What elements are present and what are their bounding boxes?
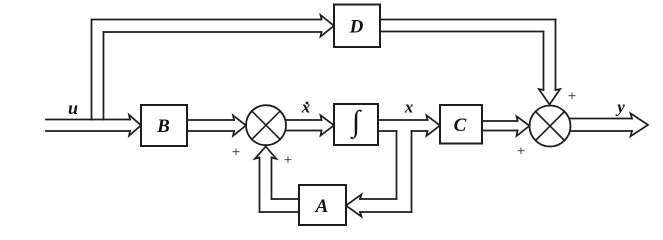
label u [68,98,78,118]
arrowhead into S2 from left [517,116,530,136]
label x-dot [301,98,311,117]
svg-text:∫: ∫ [350,105,362,140]
svg-text:+: + [517,144,525,160]
label C [454,115,467,136]
wire D output to corner [380,20,556,32]
plus sign S2 top [568,89,576,105]
svg-text:+: + [232,145,240,161]
label x [404,98,414,117]
label B [156,116,170,137]
label A [315,196,329,217]
svg-text:+: + [284,153,292,169]
arrowhead into D [321,15,335,37]
svg-text:y: y [615,98,625,117]
wire integrator to C bottom line broken at branch [378,130,428,132]
svg-text:u: u [68,98,78,118]
svg-text:B: B [156,116,170,137]
wire drop down to S2 [544,20,556,91]
wire S2 to output y [571,119,633,132]
label y [615,98,625,117]
arrowhead output y [631,113,649,136]
node x branch verticals down [397,131,412,212]
summing junction S1 [246,105,286,145]
arrowhead into S1 from below [255,147,277,159]
arrowhead into integrator [321,115,335,135]
wire integrator to C top line [378,119,428,121]
wire C to S2 [482,121,518,131]
wire branch into A horizontal [360,199,412,212]
svg-text:C: C [454,115,467,136]
wire input u double line [46,120,130,132]
plus sign S1 left [232,145,240,161]
block B [141,105,187,146]
svg-text:A: A [315,196,329,217]
wire B to S1 [187,120,234,131]
svg-text:x: x [404,98,414,117]
wire A output up to S1 [260,158,272,213]
svg-text:+: + [568,89,576,105]
block integrator [334,104,378,145]
wire S1 to integrator [286,120,322,131]
arrowhead into C [427,115,441,136]
block A [299,185,346,225]
wire A output left [260,199,300,212]
label D [349,17,364,38]
plus sign S1 right [284,153,292,169]
svg-text:x: x [301,98,311,117]
arrowhead into S1 from left [233,115,246,136]
block D [334,5,380,48]
block C [440,105,482,144]
arrowhead into B [129,115,141,136]
node u branch verticals [92,20,104,120]
svg-text:D: D [349,17,364,38]
wire top path u to D [92,20,322,33]
arrowhead into S2 from top [539,89,560,105]
summing junction S2 [530,106,571,147]
arrowhead into A [346,194,362,216]
label integral sign [350,105,362,140]
plus sign S2 bottom left [517,144,525,160]
